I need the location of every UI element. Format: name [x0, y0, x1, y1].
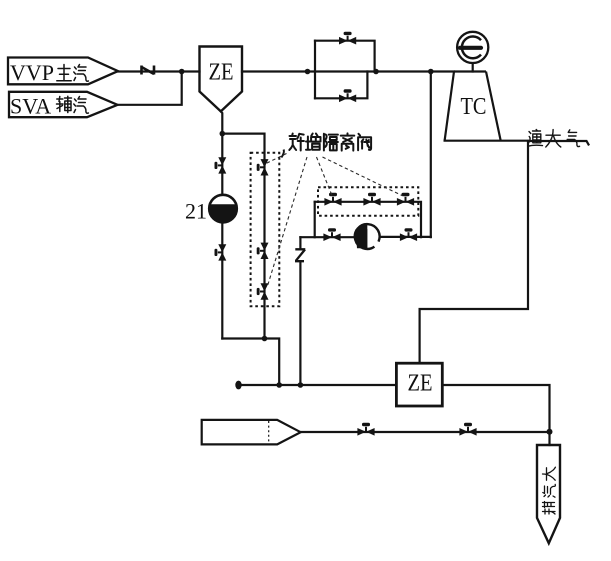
- svg-text:VVP: VVP: [10, 60, 54, 85]
- glyph qi (steam): [74, 97, 89, 114]
- valve bypass top: [339, 32, 356, 45]
- label new isolation valves: glyph xin: [289, 134, 304, 151]
- glyph fa: [358, 134, 371, 150]
- line break symbol N: [142, 66, 155, 75]
- wire into condenser vessel: [548, 432, 550, 445]
- wire VVP to ZE1: [118, 70, 200, 72]
- governor bar: [460, 46, 481, 50]
- junction bypass right: [373, 69, 379, 75]
- wire SVA riser to main line: [118, 72, 182, 105]
- wire bypass bottom branch: [315, 72, 367, 99]
- wire ZE2 right to condenser drop: [442, 385, 549, 432]
- valve bottom drain left: [357, 423, 374, 436]
- valve upper bypass 3: [397, 193, 414, 206]
- rotated vessel label glyphs: [543, 467, 556, 514]
- valve lower right: [400, 228, 417, 241]
- svg-text:21: 21: [185, 199, 207, 224]
- wire main steam line ZE1 to turbine: [242, 70, 454, 72]
- valve isolation lower on 21-line: [215, 244, 227, 260]
- wire control station upper bypass line: [315, 202, 421, 237]
- vessel VVP main steam source pennant: [8, 58, 118, 85]
- governor inner arc: [462, 37, 481, 59]
- valve lower left: [323, 228, 340, 241]
- leader dashed to bypass valve 1: [317, 157, 333, 196]
- valve new isolation bottom: [257, 283, 269, 299]
- valve upper bypass 1: [324, 193, 341, 206]
- instrument 21 level gauge circle: [209, 195, 237, 223]
- junction below funnel: [220, 131, 226, 137]
- glyph fu (auxiliary): [57, 96, 72, 112]
- separator ZE2 box: [396, 363, 442, 406]
- instrument speed governor circle: [457, 32, 488, 63]
- junction drain header 1: [276, 382, 282, 388]
- wire turbine exhaust to atmosphere and down to ZE2: [420, 141, 528, 364]
- vessel SVA auxiliary steam source pennant: [9, 92, 118, 117]
- junction left lines merge: [262, 336, 268, 342]
- junction bottom right: [547, 429, 553, 435]
- wire elbow to drain header: [222, 339, 279, 386]
- control valve half filled: [355, 224, 380, 249]
- vessel drain pennant horizontal: [202, 420, 301, 445]
- dashed box upper bypass valves: [318, 187, 418, 216]
- comma mark: [281, 150, 284, 158]
- glyph qi (steam): [74, 65, 89, 82]
- wire drop from main line to control station: [430, 72, 432, 238]
- glyph ge: [324, 134, 338, 151]
- junction SVA-main: [179, 69, 185, 75]
- wire drain drop with break: [299, 237, 301, 385]
- wire bottom drain line: [301, 431, 550, 433]
- valve bypass bottom: [339, 89, 356, 102]
- wire bypass top branch: [315, 41, 375, 72]
- turbine TC trapezoid: [445, 72, 501, 141]
- leader dashed to left box bottom valve: [268, 157, 308, 286]
- junction drain header 2: [298, 382, 304, 388]
- separator ZE1 hopper: [200, 47, 243, 112]
- wire funnel drop from ZE1: [221, 111, 223, 194]
- dashed box left new valves: [251, 153, 280, 306]
- svg-text:ZE: ZE: [209, 60, 234, 86]
- glyph qi2: [567, 130, 579, 147]
- valve new isolation middle: [257, 243, 269, 259]
- junction bypass left: [305, 69, 311, 75]
- valve bottom drain right: [459, 423, 476, 436]
- leader dashed to left box top valve: [266, 154, 287, 164]
- wire vent to atmosphere tail: [528, 141, 589, 145]
- glyph li: [341, 133, 355, 150]
- glyph zhu (main): [57, 65, 71, 81]
- valve isolation upper on 21-line: [215, 157, 227, 173]
- leader dashed to bypass valve 3: [323, 157, 403, 196]
- junction control-valve drop: [428, 69, 434, 75]
- wire bypass left riser: [314, 41, 316, 99]
- svg-text:TC: TC: [461, 94, 487, 120]
- svg-text:ZE: ZE: [408, 371, 433, 397]
- wire drain header left of ZE2: [238, 384, 396, 386]
- gauge fill: [209, 204, 237, 222]
- svg-text:SVA: SVA: [10, 94, 51, 119]
- dotted level line inside vessel: [268, 421, 270, 443]
- terminal blob drain header: [235, 381, 241, 390]
- label vent to atmosphere: glyph tong: [528, 130, 543, 147]
- valve new isolation top: [257, 159, 269, 175]
- wire control station left riser: [314, 202, 316, 237]
- line break symbol Z: [295, 249, 305, 261]
- glyph da: [546, 130, 561, 147]
- valve upper bypass 2: [363, 193, 380, 206]
- glyph zeng: [306, 134, 321, 150]
- wire control station lower line: [300, 236, 430, 239]
- wire below gauge: [221, 223, 223, 339]
- vessel condenser vertical pennant: [537, 445, 560, 543]
- wire governor stem: [472, 63, 474, 71]
- wire branch to dashed-box line: [222, 134, 264, 339]
